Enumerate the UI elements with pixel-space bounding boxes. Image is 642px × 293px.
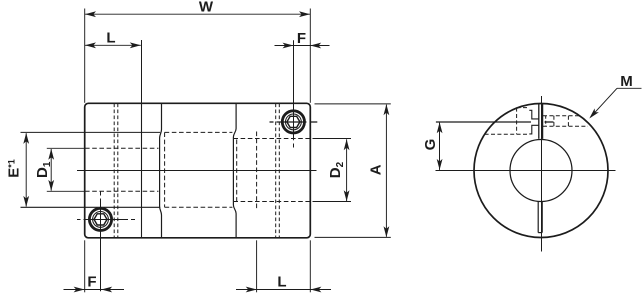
label F bottom [87, 274, 96, 291]
dimension E [23, 133, 29, 207]
clamp screw thread hidden end view [543, 116, 588, 127]
screw BL centerlines [77, 192, 135, 292]
end view top slit [539, 104, 543, 139]
screw TR centerlines [270, 40, 318, 147]
dimension D2 [313, 139, 352, 202]
screw TR head [281, 110, 306, 135]
left section step line [141, 103, 143, 238]
leader M [589, 88, 641, 118]
slit line bottom with E extension [21, 206, 161, 208]
clamp screw head hidden end view [485, 108, 530, 135]
dimension D1 [47, 148, 85, 191]
slit line top with E extension [21, 131, 161, 133]
body outline side view [85, 103, 311, 238]
end view horizontal centerline [436, 170, 616, 172]
svg-text:A: A [368, 164, 385, 175]
right cross hole hidden pair [276, 104, 280, 238]
counterbore hidden line top [165, 131, 233, 133]
right section hidden boundary [256, 132, 258, 211]
counterbore hidden line bottom [165, 206, 233, 208]
dimension L top [85, 40, 142, 103]
left cross hole hidden pair [114, 104, 118, 238]
dimension F top [275, 43, 330, 49]
end view bore circle [510, 140, 572, 202]
dimension G [437, 122, 443, 170]
svg-text:L: L [277, 274, 286, 291]
label A [368, 164, 385, 175]
svg-text:L: L [106, 30, 115, 47]
label D1 [34, 161, 53, 178]
svg-text:M: M [620, 73, 633, 90]
right counterbore step profile [233, 103, 236, 238]
left counterbore step profile [160, 103, 162, 238]
dimension F bottom [64, 240, 125, 292]
end view bottom slit [538, 201, 542, 232]
right hidden step line [236, 140, 238, 202]
clamp screw seat steps end view [529, 110, 539, 134]
label E [6, 159, 23, 178]
bore D2 hidden line top [233, 138, 310, 140]
end view vertical centerline [541, 96, 543, 252]
screw BL head [88, 207, 113, 232]
svg-text:G: G [422, 139, 439, 151]
dimension A [315, 104, 391, 238]
bore D1 hidden line top [85, 147, 159, 149]
label W [199, 0, 214, 16]
svg-text:W: W [199, 0, 214, 16]
label M [620, 73, 633, 90]
label L top [106, 30, 115, 47]
bore D2 hidden line bottom [233, 201, 310, 203]
label L bottom [277, 274, 286, 291]
label D2 [327, 161, 346, 178]
label F top [297, 30, 306, 47]
bore D1 hidden line bottom [85, 190, 159, 192]
axis centerline side view [77, 170, 317, 172]
dimension W [85, 9, 311, 103]
svg-text:F: F [87, 274, 96, 291]
clamp screw axis end view [436, 121, 554, 123]
dimension L bottom [236, 240, 331, 292]
end view outer circle [474, 104, 608, 238]
svg-text:F: F [297, 30, 306, 47]
label G [422, 139, 439, 151]
left hidden step line [164, 132, 166, 207]
